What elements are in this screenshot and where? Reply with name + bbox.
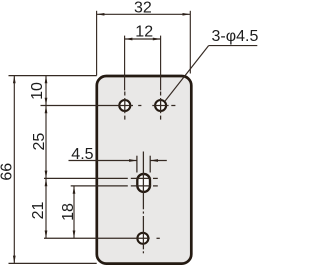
wire: slot width extension lines (4.5) — [136, 156, 138, 173]
hole H3 bottom phi4.5 — [137, 233, 148, 244]
arrowhead 10 bottom — [45, 98, 48, 106]
wire: extension line plate bottom edge (66 datum) y=263.4 — [9, 262, 97, 264]
arrowhead 66 bottom — [13, 256, 16, 264]
arrowhead 4.5 left (points right) — [129, 159, 137, 162]
wire: extension line slot upper cap center y=178.1 — [44, 177, 128, 179]
dimension 4.5 right shaft — [150, 160, 167, 162]
slot: vertical obround 4.5 wide — [137, 174, 150, 192]
arrowhead 21 top — [45, 178, 48, 186]
dimension 4.5 left shaft / leader — [69, 160, 137, 162]
wire: centerline hole H2 vertical — [160, 92, 162, 96]
arrowhead 32 right — [183, 13, 191, 16]
wire: centerline hole H1 vertical — [124, 92, 126, 96]
dimension line 32 — [97, 13, 191, 15]
dimension line 10/25/21 shared — [45, 76, 47, 239]
svg-text:3-φ4.5: 3-φ4.5 — [212, 28, 259, 45]
plate body (rounded rectangular plate, filled) — [97, 76, 192, 264]
wire: centerline slot/bottom-hole vertical x=143.4 — [142, 152, 144, 210]
arrowhead 25 top — [45, 106, 48, 114]
dimension line 18 — [73, 186, 75, 238]
arrowhead 12 right — [153, 38, 161, 41]
dimension line 12 — [125, 38, 161, 40]
arrowhead 32 left — [97, 13, 105, 16]
wire: extension line bottom hole center y=238.3 — [44, 237, 150, 239]
leader 3-phi4.5 diagonal — [165, 46, 208, 101]
leader 3-phi4.5 underline — [209, 45, 258, 47]
arrowhead 18 bottom — [73, 231, 76, 239]
extension line 32 right — [189, 11, 191, 74]
extension line 12 right — [160, 36, 162, 91]
svg-text:4.5: 4.5 — [71, 146, 93, 163]
svg-text:18: 18 — [60, 203, 77, 221]
hole H2 top-right phi4.5 — [155, 100, 166, 111]
wire: centerline top holes horizontal dashes — [138, 105, 141, 107]
svg-text:66: 66 — [0, 163, 16, 181]
svg-text:32: 32 — [134, 0, 152, 17]
extension line 32 left — [96, 11, 98, 76]
wire: extension line top holes center y=105.4 — [41, 105, 134, 107]
dimension line 66 — [13, 76, 15, 264]
arrowhead 21 bottom — [45, 231, 48, 239]
svg-text:25: 25 — [31, 133, 48, 151]
arrowhead 10 top — [45, 76, 48, 84]
svg-text:21: 21 — [30, 202, 47, 220]
arrowhead 25 bottom — [45, 171, 48, 179]
hole H1 top-left phi4.5 — [119, 100, 130, 111]
wire: extension line plate top edge (66/10 datum) y=75.5 — [9, 75, 97, 77]
svg-text:12: 12 — [135, 24, 153, 41]
svg-text:10: 10 — [29, 82, 46, 100]
extension line 12 left — [124, 36, 126, 91]
arrowhead 66 top — [13, 76, 16, 84]
arrowhead 12 left — [125, 38, 133, 41]
wire: extension line slot lower cap center y=186.1 — [71, 185, 128, 187]
arrowhead 18 top — [73, 186, 76, 194]
arrowhead 4.5 right (points left) — [150, 159, 158, 162]
